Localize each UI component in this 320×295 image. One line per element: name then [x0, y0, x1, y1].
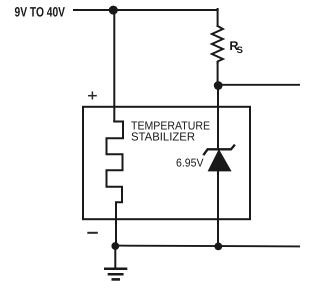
wire left branch vertical from top junction into box [113, 8, 115, 122]
wire top rail from input label to Rs branch [74, 9, 218, 11]
node junction dot ground (bottom left) [111, 242, 119, 250]
wire bottom rail to right edge [115, 245, 300, 248]
zener diode D1 triangle (anode, apex up) [209, 151, 231, 171]
node junction dot top (input / left branch) [109, 6, 118, 15]
svg-text:6.95V: 6.95V [176, 158, 204, 170]
node junction dot below RS (positive output node) [214, 81, 223, 90]
polarity minus sign [87, 232, 98, 234]
wire Rs branch top segment [217, 9, 219, 26]
wire zener anode to bottom rail [217, 171, 219, 247]
node junction dot zener anode at bottom rail [214, 243, 222, 251]
wire positive output line to right edge [218, 84, 300, 86]
resistor RS zigzag [212, 26, 223, 63]
ground stem [114, 246, 116, 268]
svg-text:STABILIZER: STABILIZER [131, 131, 195, 144]
svg-text:9V TO 40V: 9V TO 40V [15, 4, 66, 19]
polarity plus sign [88, 91, 97, 99]
zener diode D1 cathode bar with bent tips [203, 145, 235, 156]
wire zener branch from junction into box [217, 85, 219, 149]
resistor heater meander inside stabilizer [107, 122, 124, 247]
wire resistor bottom to output junction [217, 62, 219, 86]
temperature stabilizer box [83, 107, 250, 219]
ground symbol bars [104, 269, 127, 280]
svg-text:S: S [237, 44, 243, 55]
